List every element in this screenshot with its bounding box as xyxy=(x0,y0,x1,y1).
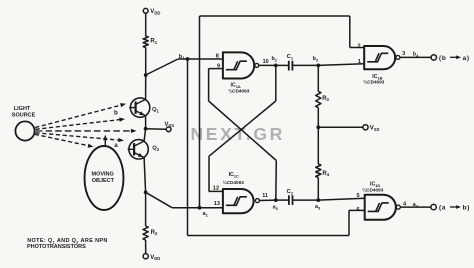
wire junction to R2 xyxy=(145,192,147,226)
light source circle xyxy=(15,121,34,140)
label IC1D xyxy=(370,182,380,188)
resistor R1 xyxy=(143,36,148,48)
label (b to a) xyxy=(439,55,470,62)
svg-text:R1: R1 xyxy=(150,39,157,45)
label b4 xyxy=(413,52,419,58)
terminal VDD bottom xyxy=(143,254,148,259)
label b (ray to Q1) xyxy=(114,110,118,117)
junction Q2/R2/a1 xyxy=(144,190,148,194)
wire Q1 emitter to VSS junction xyxy=(145,116,147,129)
pin label 13 xyxy=(214,201,220,207)
pin label 4 xyxy=(403,202,407,208)
svg-text:10: 10 xyxy=(263,59,269,65)
wire top run to IC1B xyxy=(200,16,365,48)
label 1/4CD4093 (IC1B) xyxy=(363,79,385,85)
pin label 2 xyxy=(358,43,361,49)
light ray 5 (dashed arrow) xyxy=(35,134,94,147)
wire R1 to junction xyxy=(145,48,147,76)
wire to VSS right terminal xyxy=(318,126,362,128)
transistor Q2 xyxy=(128,140,149,159)
label C2 xyxy=(287,189,294,195)
svg-text:C2: C2 xyxy=(287,189,294,195)
label C1 xyxy=(287,54,294,60)
capacitor C2 xyxy=(289,195,293,205)
wire to VSS terminal xyxy=(146,128,166,131)
svg-text:a2: a2 xyxy=(273,204,279,210)
wire junction to a1 (diagonal) xyxy=(146,192,172,207)
wire a1 to pin 13 xyxy=(172,207,223,209)
label R2 xyxy=(151,230,158,236)
node a2 xyxy=(273,198,279,211)
wire junction to b1 (diagonal) xyxy=(146,59,178,75)
terminal output b4 xyxy=(431,55,436,60)
pin label 3 xyxy=(402,51,405,57)
moving object label xyxy=(92,171,115,184)
light ray 1 (dashed arrow) xyxy=(35,103,126,127)
svg-text:¼CD4093: ¼CD4093 xyxy=(223,179,245,185)
svg-text:5: 5 xyxy=(357,193,360,199)
svg-text:b): b) xyxy=(463,205,470,212)
nand gate IC1C xyxy=(223,189,260,213)
wire b2 to C1 xyxy=(276,64,289,66)
label R3 xyxy=(322,96,329,102)
resistor R2 xyxy=(143,226,148,240)
label IC1B xyxy=(372,74,382,80)
svg-text:PHOTOTRANSISTORS: PHOTOTRANSISTORS xyxy=(27,244,86,250)
wire R4 to a3 xyxy=(317,178,319,201)
pin label 8 xyxy=(216,54,219,60)
label 1/4CD4093 (IC1D) xyxy=(362,187,384,193)
junction R1/Q1/b1 xyxy=(144,73,148,77)
wire cross diagonal b2 to pin 12 xyxy=(209,101,276,156)
svg-text:R3: R3 xyxy=(322,96,329,102)
svg-text:Q1: Q1 xyxy=(152,107,160,113)
svg-text:¼CD4093: ¼CD4093 xyxy=(363,79,385,85)
svg-text:a1: a1 xyxy=(203,211,209,217)
label a (ray to Q2) xyxy=(114,142,118,149)
wire bottom run to IC1D xyxy=(188,210,365,235)
svg-text:b3: b3 xyxy=(313,56,319,62)
pin label 11 xyxy=(262,193,268,199)
nand gate IC1A xyxy=(223,52,259,78)
pin label 1 xyxy=(358,59,361,65)
moving object ellipse xyxy=(85,146,124,210)
wire pin 12 riser xyxy=(209,156,223,191)
svg-text:a3: a3 xyxy=(315,204,321,210)
label R1 xyxy=(150,39,157,45)
svg-text:a: a xyxy=(114,142,118,149)
svg-text:3: 3 xyxy=(402,51,405,57)
svg-text:VSS: VSS xyxy=(164,122,174,128)
light ray 3 (dashed arrow) xyxy=(36,129,137,133)
wire VDD to R1 xyxy=(145,13,147,36)
label VSS right xyxy=(370,126,380,132)
nand gate IC1B xyxy=(364,46,400,69)
svg-text:¼CD4093: ¼CD4093 xyxy=(362,187,384,193)
label R4 xyxy=(322,171,329,177)
terminal output a4 xyxy=(431,204,436,209)
svg-text:OBJECT: OBJECT xyxy=(92,178,115,184)
label 1/4CD4093 (IC1A) xyxy=(228,87,250,93)
terminal VSS left xyxy=(166,127,171,132)
wire a2 riser xyxy=(275,161,278,201)
svg-text:b4: b4 xyxy=(413,52,419,58)
light source label xyxy=(12,106,36,119)
svg-text:VDD: VDD xyxy=(150,9,160,15)
label (a to b) xyxy=(439,205,470,212)
label VSS left xyxy=(164,122,174,128)
label a4 xyxy=(413,202,419,208)
light ray 4 (dashed arrow) xyxy=(36,133,125,142)
wire a1 up (to IC1B pin 2) xyxy=(199,16,201,208)
svg-text:SOURCE: SOURCE xyxy=(12,112,36,118)
svg-text:(b: (b xyxy=(439,55,446,62)
svg-text:R2: R2 xyxy=(151,230,158,236)
watermark xyxy=(191,124,285,144)
wire IC1A output to b2 xyxy=(259,64,276,66)
pin label 12 xyxy=(213,186,219,192)
svg-text:VDD: VDD xyxy=(150,255,160,261)
label VDD top xyxy=(150,9,160,15)
svg-text:MOVING: MOVING xyxy=(92,171,114,177)
label Q2 xyxy=(152,146,160,152)
svg-text:13: 13 xyxy=(214,201,220,207)
resistor R4 xyxy=(316,164,321,178)
node b2 xyxy=(272,56,278,67)
nand gate IC1D xyxy=(365,195,401,220)
node b1 xyxy=(179,54,190,61)
wire cross b2 down xyxy=(275,65,277,101)
light ray 2 (dashed arrow) xyxy=(36,118,126,130)
pin label 10 xyxy=(263,59,269,65)
svg-text:(a: (a xyxy=(439,205,446,212)
terminal VSS right xyxy=(363,125,368,130)
svg-text:b2: b2 xyxy=(272,56,278,62)
wire R3 to VSS junction xyxy=(317,108,319,128)
node b3 xyxy=(313,56,321,67)
wire junction to Q1 collector xyxy=(145,75,147,99)
wire a3 to IC1D pin 5 xyxy=(318,198,364,200)
svg-text:11: 11 xyxy=(262,193,268,199)
svg-text:8: 8 xyxy=(216,54,219,60)
svg-text:IC1C: IC1C xyxy=(229,172,239,178)
svg-text:1: 1 xyxy=(358,59,361,65)
note text xyxy=(27,238,108,250)
transistor Q1 xyxy=(129,98,150,117)
wire VSS junction down to R4 xyxy=(317,127,319,164)
wire b3 to IC1B pin 1 xyxy=(318,64,364,66)
label IC1C xyxy=(229,172,239,178)
wire IC1D output to terminal xyxy=(400,206,431,208)
svg-text:R4: R4 xyxy=(322,171,329,177)
wire Q2 emitter down xyxy=(144,158,146,193)
wire VSS junction to Q2 collector xyxy=(144,129,146,141)
node a1 xyxy=(198,206,209,218)
svg-text:C1: C1 xyxy=(287,54,294,60)
pin label 6 xyxy=(357,207,360,213)
svg-text:6: 6 xyxy=(357,207,360,213)
wire IC1B output to terminal xyxy=(400,56,431,58)
svg-text:¼CD4093: ¼CD4093 xyxy=(228,87,250,93)
svg-text:Q2: Q2 xyxy=(152,146,160,152)
wire b1 to pin 8 xyxy=(178,58,223,60)
svg-text:LIGHT: LIGHT xyxy=(14,106,31,112)
junction VSS node xyxy=(144,127,148,131)
svg-text:a): a) xyxy=(463,55,470,62)
label IC1A xyxy=(231,82,241,88)
terminal VDD top xyxy=(143,8,148,13)
junction VSS right xyxy=(316,125,320,129)
svg-text:2: 2 xyxy=(358,43,361,49)
label Q1 xyxy=(152,107,160,113)
wire R2 to VDD bottom xyxy=(145,240,147,254)
svg-text:VSS: VSS xyxy=(370,126,380,132)
wire b3 down to R3 xyxy=(317,65,319,91)
pin label 9 xyxy=(217,64,220,70)
node a3 xyxy=(315,198,321,210)
wire C1 to b3 xyxy=(292,64,318,66)
moving object motion arrow xyxy=(103,135,107,146)
wire b1 down (to IC1D pin 6) xyxy=(187,59,189,236)
wire IC1A pin 9 stub xyxy=(209,69,223,101)
label 1/4CD4093 (IC1C) xyxy=(223,179,245,185)
resistor R3 xyxy=(316,91,321,107)
capacitor C1 xyxy=(289,61,293,71)
label VDD bottom xyxy=(150,255,160,261)
svg-text:a4: a4 xyxy=(413,202,419,208)
svg-text:b1: b1 xyxy=(179,54,185,60)
wire C2 to a3 xyxy=(293,199,319,201)
svg-text:b: b xyxy=(114,110,118,117)
pin label 5 xyxy=(357,193,360,199)
wire IC1C output to a2 xyxy=(259,199,275,201)
wire cross diagonal pin 9 to a2 xyxy=(209,101,277,161)
wire a2 to C2 xyxy=(276,199,289,201)
